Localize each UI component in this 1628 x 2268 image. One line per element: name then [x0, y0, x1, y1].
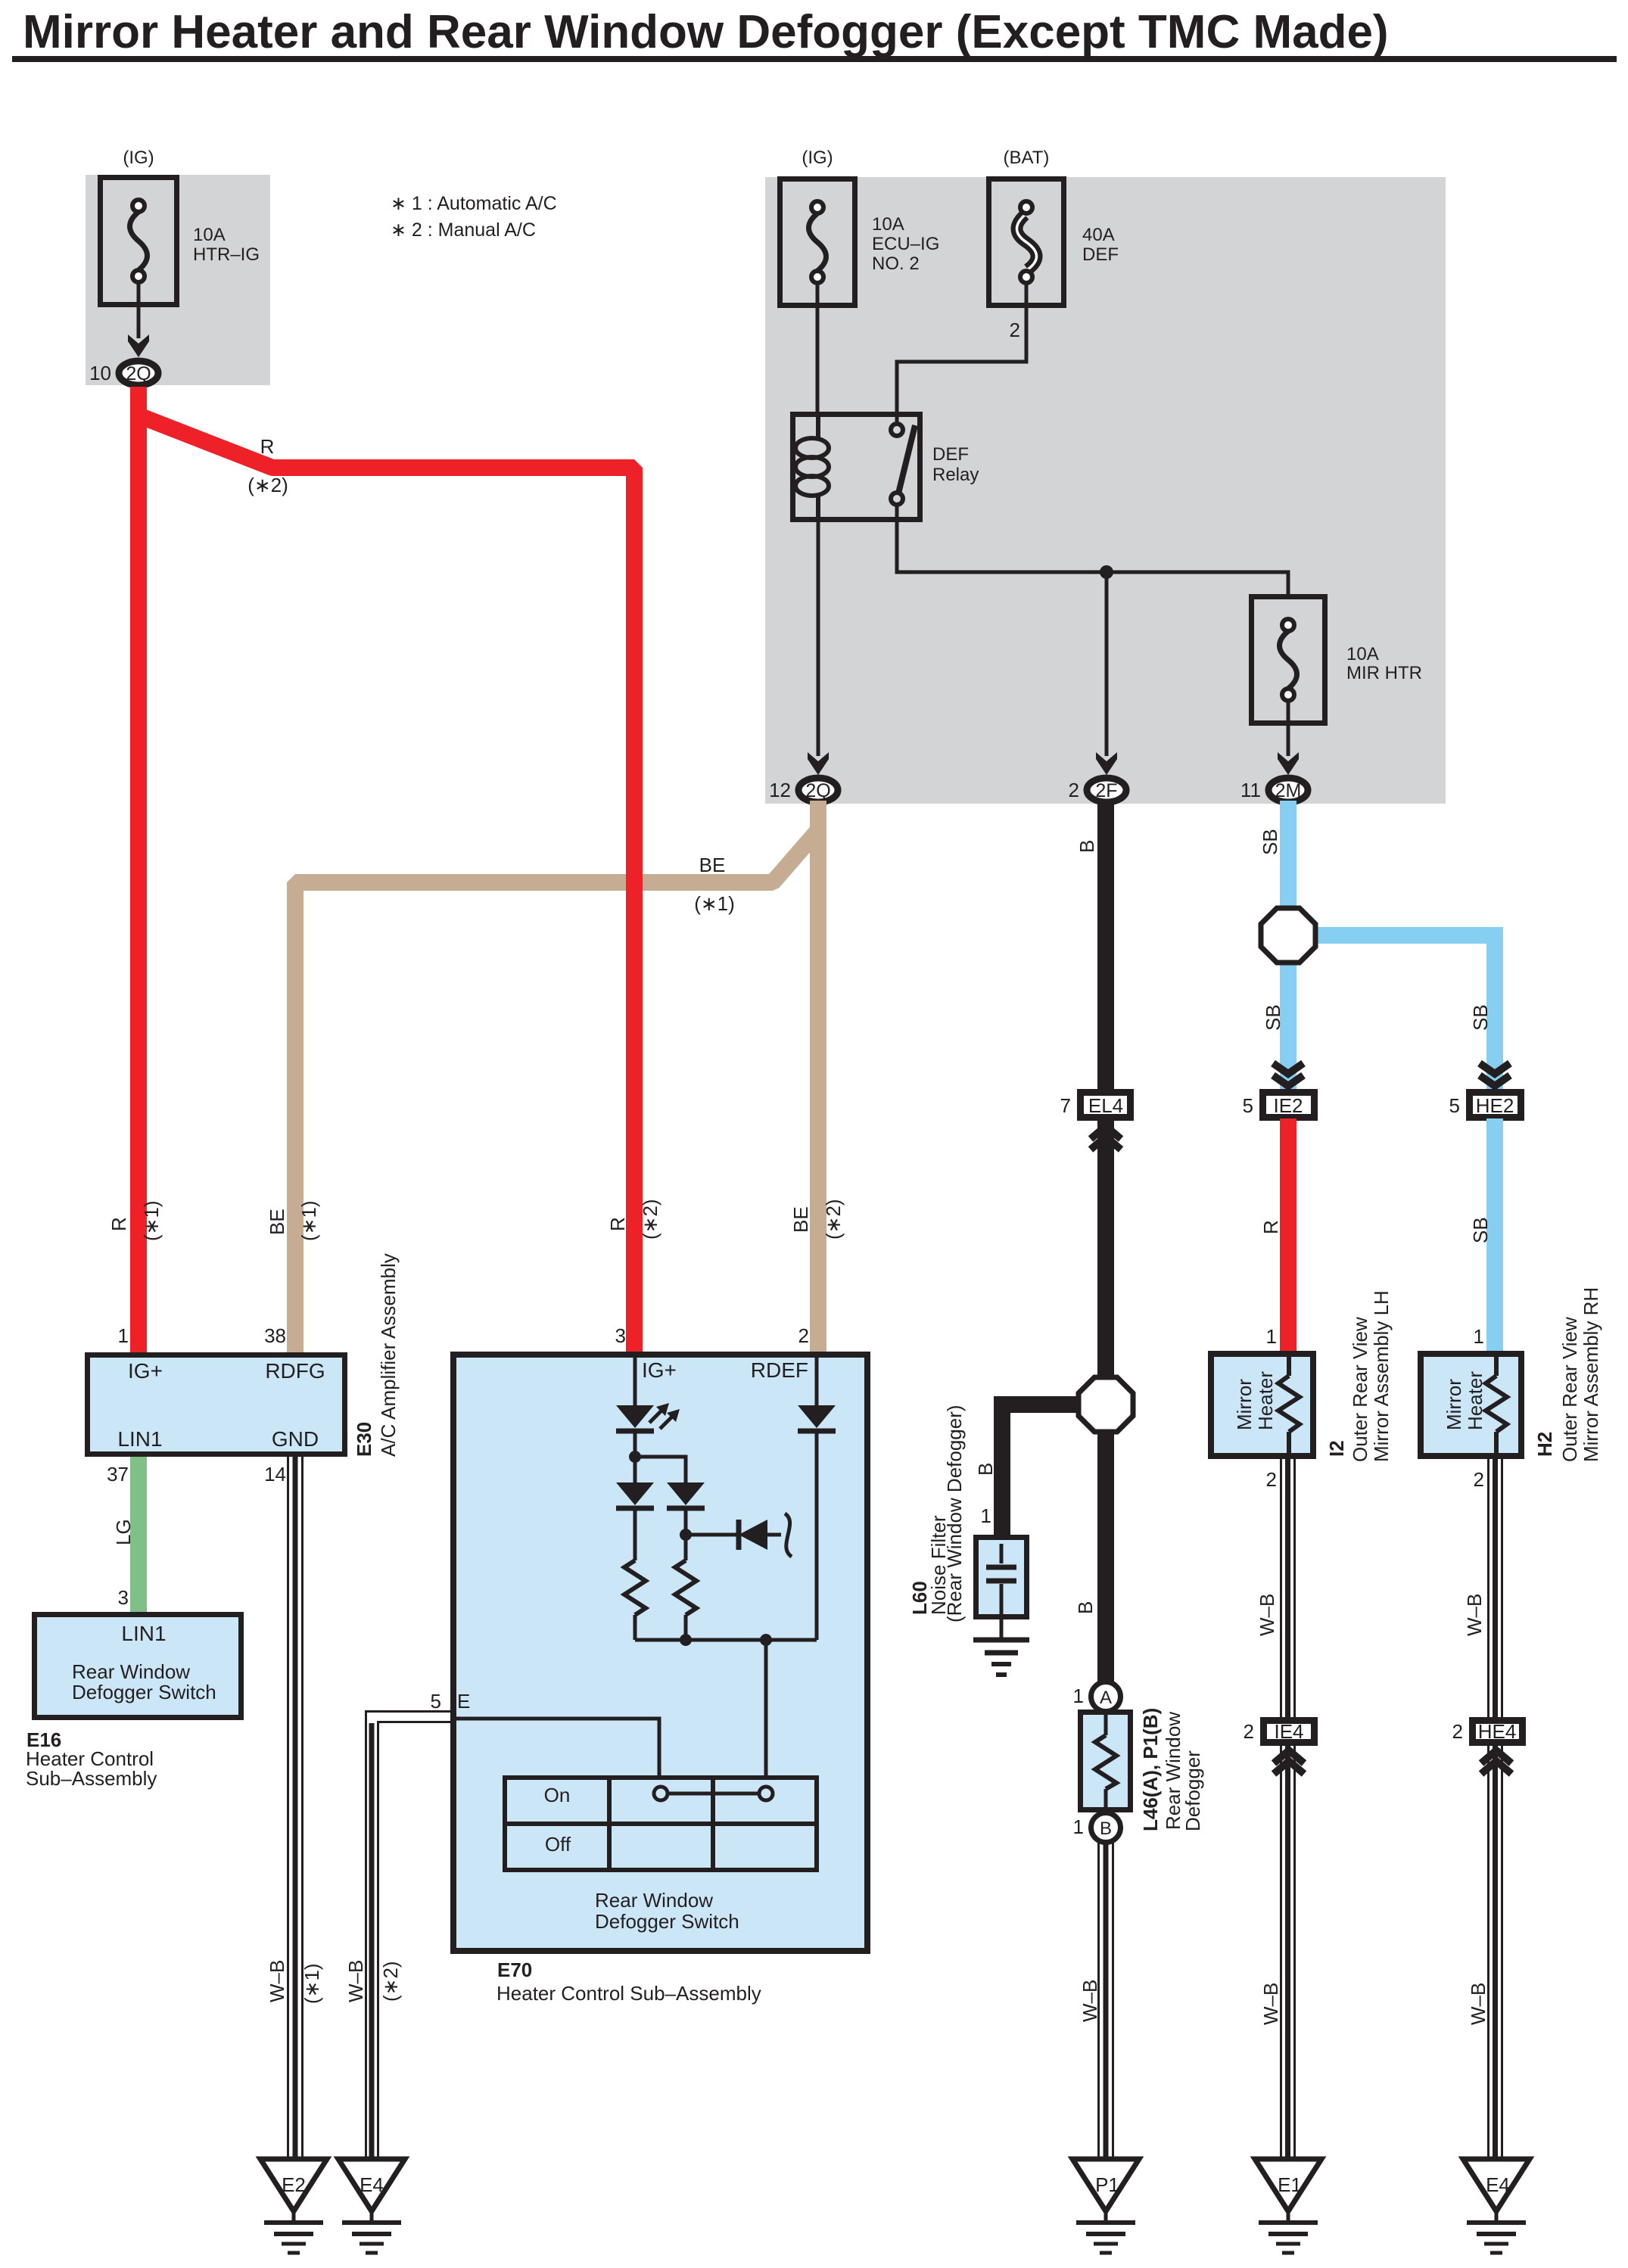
- svg-text:5: 5: [1449, 1094, 1460, 1117]
- wire B octagon to noise filter: [1002, 1405, 1082, 1536]
- svg-text:W–B: W–B: [1467, 1983, 1489, 2025]
- gray junction block right: [765, 177, 1446, 804]
- svg-text:(∗1): (∗1): [300, 1963, 323, 2004]
- wire W-B from E70 pin E to ground E4: [366, 1712, 453, 2160]
- svg-text:LIN1: LIN1: [121, 1622, 166, 1645]
- node dot: [629, 1451, 641, 1463]
- svg-text:∗ 1 : Automatic A/C: ∗ 1 : Automatic A/C: [391, 193, 557, 214]
- svg-text:On: On: [544, 1784, 571, 1806]
- svg-text:E: E: [457, 1690, 470, 1713]
- svg-text:IE4: IE4: [1274, 1720, 1303, 1743]
- wire IG+ internal: [633, 1352, 637, 1408]
- node dot 2: [680, 1529, 692, 1541]
- svg-text:2Q: 2Q: [126, 363, 151, 384]
- svg-text:2: 2: [1244, 1720, 1254, 1743]
- chassis ground of noise filter: [973, 1640, 1029, 1675]
- svg-text:SB: SB: [1469, 1004, 1492, 1031]
- arrow into connector 2M: [1278, 752, 1299, 775]
- wire SB HE2 to mirror RH: [1486, 1118, 1503, 1352]
- svg-text:B: B: [1075, 840, 1098, 853]
- mirror heater RH H2: [1421, 1354, 1521, 1456]
- junction dot: [1100, 565, 1113, 579]
- svg-text:Mirror: Mirror: [1233, 1379, 1256, 1430]
- svg-text:IE2: IE2: [1273, 1094, 1303, 1117]
- svg-text:5: 5: [1243, 1094, 1253, 1117]
- wire R2 to rail: [684, 1615, 688, 1640]
- wire W-B mirror RH to ground E4: [1489, 1459, 1502, 2159]
- svg-text:2F: 2F: [1095, 780, 1117, 801]
- wire LG E30 LIN1 to E16: [130, 1457, 147, 1613]
- connector IE2: [1263, 1093, 1315, 1118]
- wire RDEF internal: [815, 1352, 819, 1408]
- svg-text:2: 2: [1010, 319, 1020, 341]
- svg-text:Sub–Assembly: Sub–Assembly: [26, 1767, 157, 1790]
- svg-text:GND: GND: [272, 1427, 319, 1451]
- svg-text:2: 2: [1474, 1468, 1484, 1491]
- svg-text:LG: LG: [112, 1519, 135, 1545]
- connector HE4 chevrons: [1481, 1750, 1511, 1774]
- svg-text:(IG): (IG): [123, 148, 154, 168]
- wire D1 to node: [633, 1431, 637, 1457]
- switch E16 Rear Window Defogger Switch: [35, 1615, 241, 1718]
- wire D3 to node 2: [684, 1508, 688, 1560]
- gray junction block left: [86, 175, 270, 385]
- connector oval 2F: [1087, 778, 1126, 802]
- svg-text:SB: SB: [1262, 1004, 1284, 1031]
- svg-text:R: R: [1259, 1220, 1282, 1234]
- fuse 10A HTR-IG: [101, 178, 177, 305]
- switch contacts in On row: [654, 1787, 773, 1800]
- svg-text:1: 1: [118, 1324, 129, 1347]
- svg-text:MIR HTR: MIR HTR: [1346, 663, 1422, 683]
- svg-text:DEF: DEF: [932, 444, 969, 465]
- resistor R2: [675, 1560, 696, 1615]
- fuse 10A MIR HTR: [1252, 597, 1325, 723]
- ECU E30 A/C Amplifier Assembly: [88, 1355, 345, 1454]
- wire rail to switch: [764, 1640, 768, 1778]
- svg-text:1: 1: [1073, 1685, 1084, 1707]
- svg-text:Heater Control Sub–Assembly: Heater Control Sub–Assembly: [496, 1982, 761, 2005]
- svg-text:Mirror Assembly LH: Mirror Assembly LH: [1370, 1290, 1393, 1462]
- svg-text:(∗1): (∗1): [297, 1200, 320, 1241]
- wire node to right branch: [635, 1457, 686, 1482]
- svg-text:HE2: HE2: [1476, 1094, 1514, 1117]
- svg-text:E4: E4: [1486, 2173, 1510, 2196]
- svg-text:E2: E2: [282, 2173, 306, 2196]
- svg-text:Heater: Heater: [1254, 1371, 1277, 1430]
- arrow into connector 2Q pin 12: [808, 752, 829, 775]
- svg-text:12: 12: [769, 779, 791, 801]
- svg-text:Heater: Heater: [1464, 1371, 1486, 1430]
- wire D5 to rail: [815, 1431, 819, 1640]
- wire relay contact to MIR HTR fuse and 2F: [897, 505, 1288, 596]
- svg-text:HTR–IG: HTR–IG: [193, 244, 260, 265]
- svg-text:10A: 10A: [872, 214, 904, 235]
- svg-text:R: R: [260, 435, 275, 458]
- wire fuse to connector: [137, 282, 141, 338]
- wire ECU-IG fuse to relay coil: [816, 283, 820, 415]
- connector HE2: [1470, 1093, 1521, 1118]
- svg-text:Defogger: Defogger: [1181, 1750, 1204, 1831]
- svg-text:R: R: [606, 1217, 629, 1231]
- svg-text:2: 2: [1266, 1468, 1277, 1491]
- diode D2 left: [616, 1482, 654, 1508]
- svg-text:(BAT): (BAT): [1004, 148, 1050, 168]
- connector oval 2M: [1268, 778, 1308, 802]
- wire R IE2 to mirror LH: [1280, 1118, 1296, 1352]
- svg-text:(Rear Window Defogger): (Rear Window Defogger): [943, 1405, 966, 1622]
- connector IE4 chevrons: [1274, 1750, 1304, 1774]
- svg-text:RDEF: RDEF: [751, 1358, 808, 1382]
- svg-text:EL4: EL4: [1088, 1094, 1123, 1117]
- svg-text:(∗2): (∗2): [639, 1199, 661, 1240]
- ground E4 left: [338, 2159, 405, 2253]
- svg-text:IG+: IG+: [642, 1358, 677, 1382]
- svg-text:BE: BE: [699, 854, 726, 876]
- pin E wire internal: [453, 1719, 659, 1778]
- svg-text:Defogger Switch: Defogger Switch: [595, 1910, 739, 1933]
- bottom rail: [635, 1638, 817, 1642]
- svg-text:SB: SB: [1259, 829, 1281, 855]
- svg-text:∗ 2 : Manual A/C: ∗ 2 : Manual A/C: [391, 219, 536, 241]
- svg-text:B: B: [1100, 1818, 1112, 1839]
- svg-text:3: 3: [118, 1586, 129, 1609]
- wire W-B circle B to ground P1: [1099, 1843, 1113, 2159]
- svg-text:E4: E4: [360, 2173, 384, 2196]
- svg-text:DEF: DEF: [1082, 244, 1119, 265]
- svg-text:IG+: IG+: [128, 1359, 163, 1383]
- wire relay coil to connector 2Q: [817, 520, 820, 756]
- svg-text:I2: I2: [1325, 1440, 1348, 1457]
- wire SB from 2M to octagon junction: [1280, 801, 1296, 911]
- svg-text:W–B: W–B: [344, 1960, 367, 2002]
- svg-text:BE: BE: [789, 1206, 812, 1233]
- svg-text:NO. 2: NO. 2: [872, 254, 920, 274]
- wire BE from 2Q pin12 to E30 RDFG (branch): [295, 830, 818, 1352]
- connector EL4: [1081, 1093, 1131, 1118]
- svg-text:(∗2): (∗2): [379, 1961, 402, 2002]
- svg-text:2M: 2M: [1275, 780, 1302, 801]
- wire SB octagon to IE2: [1280, 960, 1296, 1093]
- wire R branch to E70 IG+: [139, 415, 634, 1352]
- relay DEF Relay: [793, 415, 920, 520]
- svg-text:Mirror: Mirror: [1443, 1379, 1465, 1430]
- connector EL4 chevrons: [1091, 1126, 1121, 1150]
- svg-text:(IG): (IG): [802, 148, 833, 168]
- svg-text:HE4: HE4: [1478, 1720, 1517, 1743]
- svg-text:P1: P1: [1095, 2173, 1119, 2196]
- ground E2: [260, 2159, 327, 2253]
- title underline: [12, 56, 1617, 62]
- diode D3 right: [667, 1482, 705, 1508]
- svg-text:10A: 10A: [193, 225, 226, 245]
- arrow into connector 2F: [1096, 752, 1117, 775]
- fuse 40A DEF: [989, 179, 1064, 306]
- wire W-B mirror LH to ground E1: [1281, 1459, 1295, 2159]
- wire junction to connector 2F: [1105, 572, 1109, 756]
- svg-text:14: 14: [264, 1463, 286, 1486]
- svg-text:2: 2: [798, 1324, 809, 1347]
- arrow into connector 2Q: [128, 334, 149, 357]
- svg-text:R: R: [107, 1217, 130, 1231]
- svg-text:10A: 10A: [1346, 644, 1379, 664]
- wire R1 to rail: [633, 1615, 637, 1640]
- svg-text:38: 38: [264, 1324, 286, 1347]
- rear window defogger L46: [1081, 1712, 1131, 1813]
- svg-text:L46(A), P1(B): L46(A), P1(B): [1139, 1708, 1162, 1831]
- connector oval 2Q (pin 10): [119, 361, 158, 385]
- wire DEF fuse to relay contact: [897, 283, 1026, 425]
- ground P1: [1072, 2159, 1139, 2253]
- svg-text:1: 1: [1474, 1325, 1484, 1348]
- svg-text:40A: 40A: [1082, 225, 1115, 245]
- svg-text:E1: E1: [1278, 2173, 1302, 2196]
- mirror heater LH I2: [1211, 1354, 1313, 1456]
- resistor R1: [624, 1560, 646, 1615]
- svg-text:LIN1: LIN1: [117, 1427, 162, 1451]
- switch assembly E70 Heater Control Sub-Assembly: [453, 1355, 867, 1951]
- svg-text:37: 37: [107, 1463, 129, 1486]
- svg-text:(∗1): (∗1): [694, 892, 735, 915]
- svg-text:2: 2: [1069, 779, 1079, 801]
- svg-text:E70: E70: [497, 1958, 532, 1981]
- svg-text:10: 10: [89, 362, 111, 384]
- svg-text:SB: SB: [1469, 1217, 1492, 1243]
- svg-text:Mirror Assembly RH: Mirror Assembly RH: [1580, 1287, 1602, 1462]
- svg-text:5: 5: [431, 1690, 441, 1713]
- connector IE2 chevrons: [1273, 1063, 1303, 1086]
- svg-text:(∗2): (∗2): [822, 1199, 845, 1240]
- diode D4 with surge element: [686, 1514, 792, 1557]
- svg-text:Mirror Heater and Rear Window: Mirror Heater and Rear Window Defogger (…: [23, 6, 1389, 58]
- LED indicator D1: [616, 1403, 680, 1431]
- connector circle A: [1091, 1682, 1121, 1712]
- svg-text:Outer Rear View: Outer Rear View: [1349, 1317, 1371, 1462]
- svg-text:B: B: [974, 1463, 997, 1476]
- svg-text:RDFG: RDFG: [265, 1359, 325, 1383]
- wire B octagon to defogger: [1097, 1429, 1114, 1683]
- wire node down: [633, 1457, 637, 1482]
- svg-text:Off: Off: [545, 1833, 571, 1856]
- connector oval 2Q (pin 12): [798, 778, 838, 802]
- noise filter L60: [976, 1538, 1027, 1641]
- svg-text:2: 2: [1452, 1720, 1463, 1743]
- svg-text:W–B: W–B: [1256, 1594, 1278, 1636]
- switch contact table: [503, 1775, 819, 1872]
- svg-text:7: 7: [1060, 1094, 1071, 1117]
- svg-text:1: 1: [1073, 1815, 1084, 1838]
- fuse 10A ECU-IG NO.2: [780, 179, 855, 306]
- diode D5 on RDEF: [798, 1405, 836, 1431]
- wire D2 to resistor R1: [633, 1508, 637, 1560]
- wire W-B E30 GND to ground E2: [288, 1457, 303, 2159]
- wire SB octagon to HE2: [1313, 935, 1495, 1093]
- svg-text:Rear Window: Rear Window: [595, 1889, 713, 1912]
- wire BE from 2Q pin12 to E70 RDEF: [810, 801, 826, 1352]
- wire R from 2Q pin10 to E30 IG+: [130, 387, 147, 1352]
- svg-text:A: A: [1100, 1688, 1112, 1708]
- wire B from 2F to octagon junction: [1097, 801, 1114, 1380]
- junction octagon B: [1079, 1377, 1133, 1432]
- svg-text:W–B: W–B: [1463, 1594, 1486, 1636]
- connector IE4: [1264, 1721, 1315, 1743]
- svg-text:BE: BE: [266, 1209, 288, 1235]
- svg-text:Rear Window: Rear Window: [72, 1660, 190, 1683]
- svg-text:W–B: W–B: [1259, 1983, 1282, 2025]
- svg-text:W–B: W–B: [1079, 1980, 1101, 2022]
- connector HE2 chevrons: [1480, 1063, 1510, 1086]
- svg-text:Relay: Relay: [932, 465, 979, 485]
- svg-text:2Q: 2Q: [805, 780, 830, 801]
- svg-text:11: 11: [1240, 779, 1261, 801]
- wire MIR HTR fuse to connector 2M: [1287, 701, 1290, 756]
- svg-text:1: 1: [981, 1504, 991, 1527]
- svg-text:A/C Amplifier Assembly: A/C Amplifier Assembly: [377, 1253, 400, 1457]
- connector circle B: [1091, 1813, 1121, 1843]
- ground E1: [1255, 2159, 1321, 2253]
- svg-text:Outer Rear View: Outer Rear View: [1558, 1317, 1581, 1462]
- svg-text:H2: H2: [1533, 1432, 1556, 1457]
- junction octagon SB: [1261, 908, 1315, 963]
- svg-text:E30: E30: [353, 1422, 375, 1457]
- svg-text:B: B: [1074, 1601, 1097, 1614]
- svg-text:3: 3: [615, 1324, 626, 1347]
- svg-text:(∗2): (∗2): [247, 474, 288, 496]
- connector HE4: [1473, 1721, 1523, 1743]
- svg-text:(∗1): (∗1): [140, 1200, 163, 1241]
- svg-text:ECU–IG: ECU–IG: [872, 234, 939, 254]
- svg-text:W–B: W–B: [266, 1960, 288, 2002]
- svg-text:1: 1: [1266, 1325, 1277, 1348]
- ground E4 right: [1463, 2159, 1530, 2253]
- svg-text:Defogger Switch: Defogger Switch: [72, 1681, 216, 1703]
- rail node dots: [680, 1634, 692, 1646]
